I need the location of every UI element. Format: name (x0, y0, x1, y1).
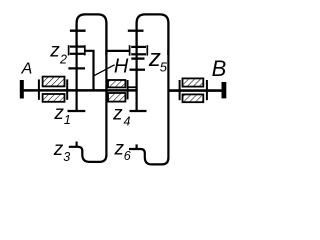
bearing support left: hatched block top (43, 77, 65, 87)
planet z2 gear body bottom bar (70, 53, 84, 55)
ring gear z3 support leg (105, 50, 107, 157)
planet z5 left cheek (129, 45, 131, 55)
bearing support right: left wall (179, 80, 181, 100)
ring gear z3 rim and bracket (69, 147, 107, 162)
gear rim inside right arch (128, 30, 144, 32)
svg-text:6: 6 (124, 149, 131, 163)
wire: input shaft A axis (23, 89, 78, 92)
svg-text:1: 1 (64, 113, 71, 127)
planet z5 gear body top bar (131, 46, 146, 48)
gear z4 bottom rim (130, 110, 147, 112)
gear z1 radial line (75, 45, 77, 111)
planet z5 right cheek (146, 45, 148, 55)
svg-text:H: H (114, 55, 129, 77)
wire: central shaft axis (76, 89, 138, 92)
svg-text:2: 2 (59, 53, 67, 67)
shaft A end bar (20, 80, 24, 99)
svg-text:B: B (212, 56, 227, 81)
carrier left arch frame (77, 14, 107, 55)
bearing support right: hatched block bottom (183, 94, 204, 102)
carrier right arch frame (137, 14, 169, 55)
ring gear z6 support leg (167, 50, 169, 159)
svg-text:5: 5 (160, 59, 168, 74)
ring gear z3 stub on z1 axis line (75, 142, 77, 148)
gear z4 top rim (130, 69, 146, 71)
bearing support right: right wall (206, 80, 208, 100)
planet z5 axle link from carrier (106, 50, 129, 52)
wire: output shaft B axis (168, 89, 222, 92)
bearing support left: hatched block bottom (43, 94, 65, 102)
bearing support center: right wall (127, 80, 129, 99)
gear z1 bottom rim (68, 110, 86, 112)
hollow shaft upper line (128, 86, 137, 88)
ring gear z6 stub on z4 axis line (136, 144, 138, 149)
carrier H arm (85, 51, 94, 90)
bearing support left: left wall (38, 79, 40, 99)
leader line to H (94, 65, 115, 76)
svg-text:4: 4 (124, 115, 131, 129)
planet z2 right cheek (84, 45, 86, 55)
shaft B end bar (222, 82, 227, 98)
gear z4 radial line (136, 45, 138, 111)
svg-text:z: z (112, 104, 123, 125)
svg-text:A: A (21, 60, 33, 77)
planet z2 gear body top bar (70, 45, 84, 47)
bearing support center: hatched block bottom (108, 93, 125, 102)
planet z5 gear body bottom bar (131, 53, 146, 55)
svg-text:z: z (53, 103, 64, 124)
svg-text:z: z (49, 40, 60, 61)
ring gear z6 rim and bracket (129, 149, 168, 164)
bearing support right: hatched block top (183, 78, 204, 86)
planet z5 lower rim (mesh with z4) (131, 57, 144, 59)
bearing support center: hatched block top (108, 80, 125, 87)
gear z1 top rim (68, 67, 85, 69)
bearing support left: right wall (66, 79, 68, 99)
planet z2 left cheek (68, 45, 70, 55)
svg-text:3: 3 (63, 150, 70, 164)
svg-text:z: z (53, 139, 64, 160)
gear rim inside left arch (70, 30, 86, 32)
